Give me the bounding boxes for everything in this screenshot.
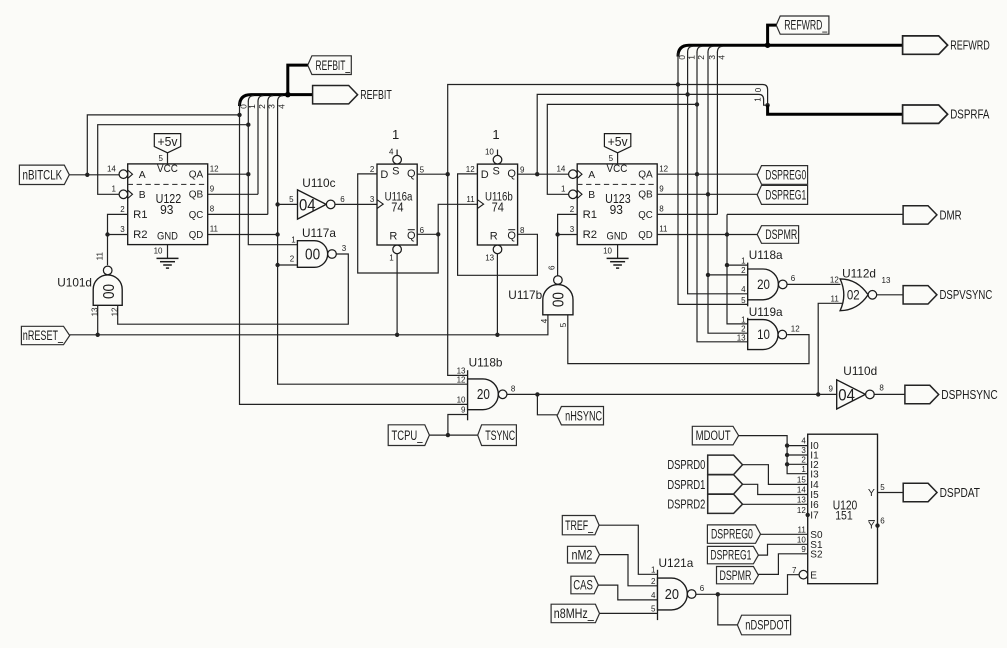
wire bus line 4 (QD net to U118b pin12) xyxy=(278,102,468,385)
junction QA123/line2 xyxy=(695,172,699,176)
svg-text:4: 4 xyxy=(741,285,746,294)
wire REFBIT_ to bus (thick) xyxy=(288,65,308,95)
counter U123 xyxy=(577,164,657,245)
counter U122 xyxy=(128,164,208,245)
wire U123 B loop to right line2 xyxy=(547,104,697,194)
right bus line curves xyxy=(688,46,693,52)
svg-text:3: 3 xyxy=(370,195,375,204)
svg-text:10: 10 xyxy=(757,326,770,342)
nand U117b (vertical) xyxy=(543,285,573,315)
svg-text:VCC: VCC xyxy=(607,163,628,175)
junction MDOUT/I1 xyxy=(785,453,789,457)
svg-text:12: 12 xyxy=(830,275,839,284)
wire U110c out to U116a clock xyxy=(335,203,377,205)
wire E pin to U121a out xyxy=(696,575,799,595)
wire U118b out to U110d xyxy=(507,393,837,395)
wire U120 Y out xyxy=(878,492,904,494)
svg-text:n8MHz_: n8MHz_ xyxy=(554,606,594,621)
flag nBITCLK xyxy=(19,165,69,184)
flip-flop U116a xyxy=(377,164,417,245)
svg-text:14: 14 xyxy=(556,164,565,173)
svg-text:REFWRD_: REFWRD_ xyxy=(784,18,827,33)
svg-text:nBITCLK: nBITCLK xyxy=(23,167,63,182)
svg-text:13: 13 xyxy=(457,367,466,376)
inverter U110d xyxy=(837,380,866,409)
svg-text:8: 8 xyxy=(659,205,664,214)
svg-text:10: 10 xyxy=(603,246,612,255)
junction Qb node xyxy=(535,172,539,176)
nand U119a (3-input) xyxy=(747,318,749,350)
flag TREF_ xyxy=(562,516,599,535)
svg-text:11: 11 xyxy=(797,525,806,534)
wire Qb net up to right bus line1 xyxy=(537,94,767,174)
junction line0/top wire xyxy=(237,113,241,117)
svg-text:DSPRD0: DSPRD0 xyxy=(667,457,705,472)
svg-text:QC: QC xyxy=(638,210,653,221)
flag DSPREG1 (top) xyxy=(757,185,807,204)
svg-text:2: 2 xyxy=(120,205,125,214)
svg-text:DSPRFA: DSPRFA xyxy=(950,107,990,122)
junction line1 taps xyxy=(246,123,250,127)
svg-text:1: 1 xyxy=(492,127,499,142)
svg-text:U117b: U117b xyxy=(508,288,542,302)
wire nHSYNC branch xyxy=(537,394,557,414)
wire I0 stub xyxy=(787,445,808,447)
svg-text:4: 4 xyxy=(389,148,394,157)
svg-text:QA: QA xyxy=(638,170,653,181)
svg-text:DSPMR: DSPMR xyxy=(765,227,797,242)
svg-text:7: 7 xyxy=(792,566,797,575)
junction QD123 node xyxy=(725,232,729,236)
svg-text:00: 00 xyxy=(550,292,567,307)
wire U123 R1 xyxy=(558,214,578,234)
wire bus line 2 (QB net) xyxy=(257,102,259,195)
wire U123 QB to DSPREG1 xyxy=(657,193,757,195)
svg-text:2: 2 xyxy=(801,455,806,464)
svg-text:3: 3 xyxy=(120,225,125,234)
bus REFWRD thick horizontal (right) xyxy=(678,45,903,56)
svg-text:A: A xyxy=(139,170,146,181)
svg-text:I3: I3 xyxy=(810,469,819,480)
wire U118a pin1 stub xyxy=(727,264,748,266)
svg-text:14: 14 xyxy=(797,486,806,495)
wire U116a R to nRESET xyxy=(396,254,398,335)
svg-text:U101d: U101d xyxy=(57,275,92,289)
svg-text:12: 12 xyxy=(457,375,466,384)
svg-text:+5v: +5v xyxy=(158,134,178,149)
power +5v (U123) xyxy=(604,134,630,153)
wire U122 QB to line2 xyxy=(208,193,258,195)
svg-text:1: 1 xyxy=(753,97,762,102)
wire U116a feedback Qbar to D xyxy=(358,174,439,273)
wire DSPRD1 to I5 xyxy=(743,484,808,494)
junction MDOUT/I2 xyxy=(785,462,789,466)
flag REFBIT (wide output) xyxy=(313,86,358,104)
svg-text:B: B xyxy=(588,190,595,201)
junction REFWRD_/bus (thick) xyxy=(765,42,771,48)
svg-text:5: 5 xyxy=(880,483,885,492)
wire bus line 1 (QA net to U117a pin1) xyxy=(248,102,297,245)
svg-text:QD: QD xyxy=(638,230,653,241)
wire nM2 to U121a pin2 xyxy=(600,555,658,586)
flag nM2 xyxy=(568,546,600,563)
svg-text:U110c: U110c xyxy=(302,176,335,190)
svg-text:R: R xyxy=(389,230,397,242)
junction B/line2 xyxy=(695,102,699,106)
svg-text:11: 11 xyxy=(466,195,475,204)
svg-text:9: 9 xyxy=(461,406,466,415)
svg-text:14: 14 xyxy=(107,164,116,173)
flag CAS xyxy=(571,576,598,594)
svg-text:D: D xyxy=(481,169,489,181)
svg-text:1: 1 xyxy=(389,253,394,262)
junction nRESET/U116a.R xyxy=(395,333,399,337)
svg-text:Y: Y xyxy=(868,520,875,532)
wire U112d out xyxy=(877,294,903,296)
wire R2 to U101d output xyxy=(107,235,109,266)
svg-text:nM2: nM2 xyxy=(571,547,592,562)
wire TCPU to TSYNC xyxy=(429,434,477,436)
svg-text:2: 2 xyxy=(651,577,656,586)
svg-text:74: 74 xyxy=(492,200,504,214)
flag DMR (output) xyxy=(903,206,937,224)
svg-text:DSPREG0: DSPREG0 xyxy=(765,168,806,183)
junction nBITCLK branch xyxy=(85,173,89,177)
svg-text:10: 10 xyxy=(797,535,806,544)
nand U101d (vertical) xyxy=(93,275,122,305)
svg-text:Q: Q xyxy=(407,168,416,180)
flag MDOUT xyxy=(692,426,738,445)
junction nRESET/U101d.13 xyxy=(96,333,100,337)
junction DSPRFA bus merge xyxy=(765,103,769,107)
svg-text:REFBIT_: REFBIT_ xyxy=(316,58,351,73)
svg-text:04: 04 xyxy=(299,197,316,215)
svg-text:11: 11 xyxy=(830,295,839,304)
svg-text:5: 5 xyxy=(420,165,425,174)
wire U117b output to U123 R1/R2 xyxy=(557,235,559,276)
bus REFBIT thick horizontal (left) xyxy=(240,95,313,106)
nand U117a xyxy=(297,241,327,268)
svg-text:04: 04 xyxy=(838,387,855,405)
svg-text:DSPRD2: DSPRD2 xyxy=(667,497,705,512)
svg-text:151: 151 xyxy=(835,509,853,523)
wire MDOUT to I0-I3 xyxy=(739,436,808,474)
svg-text:2: 2 xyxy=(370,165,375,174)
svg-text:1: 1 xyxy=(291,236,296,245)
svg-text:GND: GND xyxy=(607,230,628,242)
svg-text:QC: QC xyxy=(189,210,204,221)
svg-text:20: 20 xyxy=(757,276,770,292)
wire right line1 to U118a pin4 xyxy=(688,52,748,294)
bus DSPRFA thick wire xyxy=(768,105,903,114)
flag DSPRD0 (wide, text left) xyxy=(708,455,743,474)
svg-text:U118b: U118b xyxy=(469,355,503,369)
flip-flop U116b xyxy=(477,164,517,245)
svg-text:CAS: CAS xyxy=(573,578,593,593)
svg-text:MDOUT: MDOUT xyxy=(696,428,731,443)
svg-text:TREF_: TREF_ xyxy=(565,518,593,533)
wire I2 stub xyxy=(787,463,808,465)
ground (U122) xyxy=(167,245,169,259)
junction Qa node xyxy=(446,172,450,176)
svg-text:QD: QD xyxy=(189,230,204,241)
junction Qb / right line1 xyxy=(685,92,689,96)
svg-text:2: 2 xyxy=(741,266,746,275)
wire nDSPDOT branch xyxy=(718,594,738,625)
svg-text:U118a: U118a xyxy=(749,248,783,262)
svg-text:9: 9 xyxy=(801,545,806,554)
svg-text:8: 8 xyxy=(210,205,215,214)
flag REFWRD (wide output) xyxy=(903,36,948,54)
svg-text:S: S xyxy=(493,166,500,178)
svg-text:00: 00 xyxy=(101,284,118,299)
svg-text:I7: I7 xyxy=(810,511,819,522)
svg-text:U119a: U119a xyxy=(749,305,783,319)
svg-text:REFWRD: REFWRD xyxy=(950,38,990,53)
junction Qbar-a node xyxy=(436,232,440,236)
svg-text:U117a: U117a xyxy=(302,226,336,240)
flag DSPVSYNC (output) xyxy=(903,286,937,304)
wire right line4 (QC net) xyxy=(716,52,718,214)
junction U122 R1/R2 xyxy=(105,232,109,236)
wire U116a Qbar out xyxy=(417,233,438,235)
svg-text:74: 74 xyxy=(391,200,403,214)
svg-text:12: 12 xyxy=(797,506,806,515)
wire line4 to U110c input xyxy=(278,203,298,205)
wire U123 QC to right line4 xyxy=(657,213,717,215)
svg-text:1: 1 xyxy=(741,256,746,265)
wire U116b Q out to U123 A xyxy=(518,173,569,175)
wire nBITCLK up-loop to bus line0 xyxy=(87,115,239,175)
wire DSPRD0 to I4 xyxy=(743,465,808,485)
svg-text:1: 1 xyxy=(111,184,116,193)
svg-text:R2: R2 xyxy=(133,229,147,241)
wire U116a Q out xyxy=(417,173,448,175)
svg-text:DSPREG1: DSPREG1 xyxy=(710,548,751,563)
svg-text:REFBIT: REFBIT xyxy=(360,87,392,102)
svg-text:A: A xyxy=(588,170,595,181)
svg-text:Q: Q xyxy=(507,230,516,242)
flag nHSYNC xyxy=(557,407,603,425)
svg-text:8: 8 xyxy=(511,384,516,393)
flag DSPREG1 (bottom) xyxy=(707,546,758,563)
svg-text:VCC: VCC xyxy=(157,163,178,175)
wire U119a out to U117b pin5 xyxy=(568,315,809,364)
wire right line2 to U119a pin13 xyxy=(697,52,748,342)
junction I7 dot xyxy=(806,513,810,517)
svg-text:5: 5 xyxy=(559,322,568,327)
svg-text:5: 5 xyxy=(741,296,746,305)
nor U112d xyxy=(840,279,868,311)
wire U123 QA to DSPREG0 xyxy=(657,173,757,175)
wire CAS to U121a pin4 xyxy=(598,585,657,600)
flag TSYNC xyxy=(478,425,517,446)
svg-text:93: 93 xyxy=(610,202,623,217)
wire U112d pin11 from DSPHSYNC net xyxy=(818,303,842,394)
svg-text:11: 11 xyxy=(210,225,219,234)
svg-text:D: D xyxy=(380,169,388,181)
svg-text:E: E xyxy=(810,570,817,581)
wire Qbar-a to U116b clock xyxy=(438,204,477,234)
wire node727 vertical xyxy=(727,214,748,324)
svg-text:20: 20 xyxy=(665,586,679,603)
svg-text:10: 10 xyxy=(485,148,494,157)
svg-text:4: 4 xyxy=(801,437,806,446)
junction REFBIT_ bus (thick) xyxy=(285,92,291,98)
junction line3/U118a pin2 xyxy=(706,273,710,277)
junction QB123/line3 xyxy=(706,192,710,196)
svg-text:9: 9 xyxy=(659,184,664,193)
svg-text:Q: Q xyxy=(507,168,516,180)
svg-text:9: 9 xyxy=(520,165,525,174)
svg-text:6: 6 xyxy=(791,274,796,283)
svg-text:12: 12 xyxy=(659,164,668,173)
svg-text:R1: R1 xyxy=(133,209,147,221)
nand U118b (4-input) xyxy=(467,370,469,420)
svg-text:8: 8 xyxy=(520,226,525,235)
wire U122 QC to line3 xyxy=(208,213,268,215)
svg-text:2: 2 xyxy=(290,254,295,263)
junction nDSPDOT branch xyxy=(716,592,720,596)
svg-text:DMR: DMR xyxy=(940,207,962,222)
flag nRESET_ xyxy=(21,326,69,344)
wire U116b feedback Qbar to D xyxy=(458,174,538,275)
svg-text:QB: QB xyxy=(189,190,204,201)
svg-text:5: 5 xyxy=(159,154,164,163)
svg-text:nDSPDOT: nDSPDOT xyxy=(745,618,789,633)
wire U123 R2 xyxy=(558,234,578,236)
svg-text:6: 6 xyxy=(700,584,705,593)
svg-text:13: 13 xyxy=(737,334,746,343)
svg-text:Q: Q xyxy=(407,230,416,242)
wire U122 QD to line4 xyxy=(208,234,278,236)
flag DSPMR (top) xyxy=(757,226,798,244)
power +5v (U122) xyxy=(154,134,180,153)
junction nHSYNC branch xyxy=(535,392,539,396)
wire U122 R1 xyxy=(108,214,128,234)
wire U123 QD to DSPMR xyxy=(657,234,757,236)
svg-text:GND: GND xyxy=(157,230,178,242)
svg-text:15: 15 xyxy=(797,476,806,485)
wire U101d pin12 to U117a output xyxy=(118,254,349,324)
svg-text:13: 13 xyxy=(797,495,806,504)
svg-text:nHSYNC: nHSYNC xyxy=(565,408,602,423)
junction TCPU node xyxy=(446,433,450,437)
junction MDOUT/I0 xyxy=(785,443,789,447)
svg-text:DSPHSYNC: DSPHSYNC xyxy=(941,387,997,402)
nand U118a (4-input) xyxy=(747,263,749,307)
svg-text:6: 6 xyxy=(420,226,425,235)
flag REFBIT_ xyxy=(308,56,352,75)
wire n8MHz_ to U121a pin5 xyxy=(600,612,658,614)
wire right line0 to U118a pin5 xyxy=(678,53,748,305)
svg-text:10: 10 xyxy=(457,396,466,405)
svg-text:12: 12 xyxy=(210,164,219,173)
wire DSPMR to S2 xyxy=(758,554,807,575)
svg-text:+5v: +5v xyxy=(608,134,628,149)
wire DMR from QD node xyxy=(727,213,903,215)
junction Qa / right line0 xyxy=(676,82,680,86)
svg-text:10: 10 xyxy=(154,246,163,255)
wire right line3 to U119a pin2 xyxy=(708,52,748,333)
flag REFWRD_ xyxy=(776,16,829,34)
flag DSPMR (bottom) xyxy=(717,567,759,584)
junction node727/U118a pin1 xyxy=(725,263,729,267)
svg-text:13: 13 xyxy=(485,253,494,262)
svg-text:DSPRD1: DSPRD1 xyxy=(667,477,705,492)
wire REFWRD_ to bus (thick) xyxy=(768,25,777,45)
flag DSPREG0 (bottom) xyxy=(707,525,760,543)
wire DSPRD2 to I6 xyxy=(743,503,808,505)
svg-text:DSPDAT: DSPDAT xyxy=(940,485,980,500)
svg-text:5: 5 xyxy=(651,604,656,613)
svg-text:U110d: U110d xyxy=(843,364,877,378)
nand U121a (4-input) xyxy=(657,570,659,620)
wire I1 stub xyxy=(787,454,808,456)
svg-text:QA: QA xyxy=(189,170,204,181)
wire U118a out to U112d pin12 xyxy=(787,283,840,285)
flag DSPRD1 (wide, text left) xyxy=(708,475,743,494)
svg-text:6: 6 xyxy=(880,516,885,525)
svg-text:TCPU_: TCPU_ xyxy=(392,428,423,443)
svg-text:U112d: U112d xyxy=(842,267,876,281)
svg-text:R1: R1 xyxy=(583,209,597,221)
flag DSPREG0 (top) xyxy=(757,166,807,185)
svg-text:U121a: U121a xyxy=(659,556,694,570)
wire U122 QA to line1 xyxy=(208,173,249,175)
svg-text:5: 5 xyxy=(609,154,614,163)
svg-text:5: 5 xyxy=(289,195,294,204)
svg-text:93: 93 xyxy=(160,202,173,217)
svg-text:S2: S2 xyxy=(810,549,823,560)
wire nRESET rail xyxy=(70,315,548,335)
svg-text:3: 3 xyxy=(801,446,806,455)
svg-text:9: 9 xyxy=(829,385,834,394)
svg-text:0: 0 xyxy=(754,87,763,92)
svg-text:02: 02 xyxy=(847,287,860,303)
svg-text:1: 1 xyxy=(801,465,806,474)
svg-text:4: 4 xyxy=(540,318,549,323)
svg-text:00: 00 xyxy=(305,246,320,263)
svg-text:1: 1 xyxy=(561,184,566,193)
svg-text:I6: I6 xyxy=(810,500,819,511)
wire U118a pin2 stub xyxy=(708,274,748,276)
junction U112d-11 branch xyxy=(816,392,820,396)
svg-text:11: 11 xyxy=(659,225,668,234)
ground (U123) xyxy=(617,245,619,259)
junction nRESET/U116b.R xyxy=(495,333,499,337)
svg-text:1: 1 xyxy=(392,127,399,142)
svg-text:12: 12 xyxy=(791,325,800,334)
wire U116b R to nRESET xyxy=(496,254,498,335)
flag DSPHSYNC (output) xyxy=(905,385,939,403)
svg-text:11: 11 xyxy=(95,252,104,261)
svg-text:DSPREG1: DSPREG1 xyxy=(765,188,806,203)
wire U117a pin2 from line4 xyxy=(278,264,298,266)
svg-text:6: 6 xyxy=(548,265,557,270)
wire U110d out xyxy=(874,393,905,395)
flag DSPRFA (wide output) xyxy=(903,105,948,123)
wire U122 R2 xyxy=(108,234,128,236)
wire U122 B-input loop to bus line1 xyxy=(98,125,249,195)
svg-text:3: 3 xyxy=(342,244,347,253)
svg-text:3: 3 xyxy=(570,225,575,234)
svg-text:DSPVSYNC: DSPVSYNC xyxy=(940,287,993,302)
flag nDSPDOT xyxy=(737,615,790,635)
svg-text:R2: R2 xyxy=(583,229,597,241)
mux U120 xyxy=(808,434,878,584)
flag TCPU_ xyxy=(388,425,429,446)
